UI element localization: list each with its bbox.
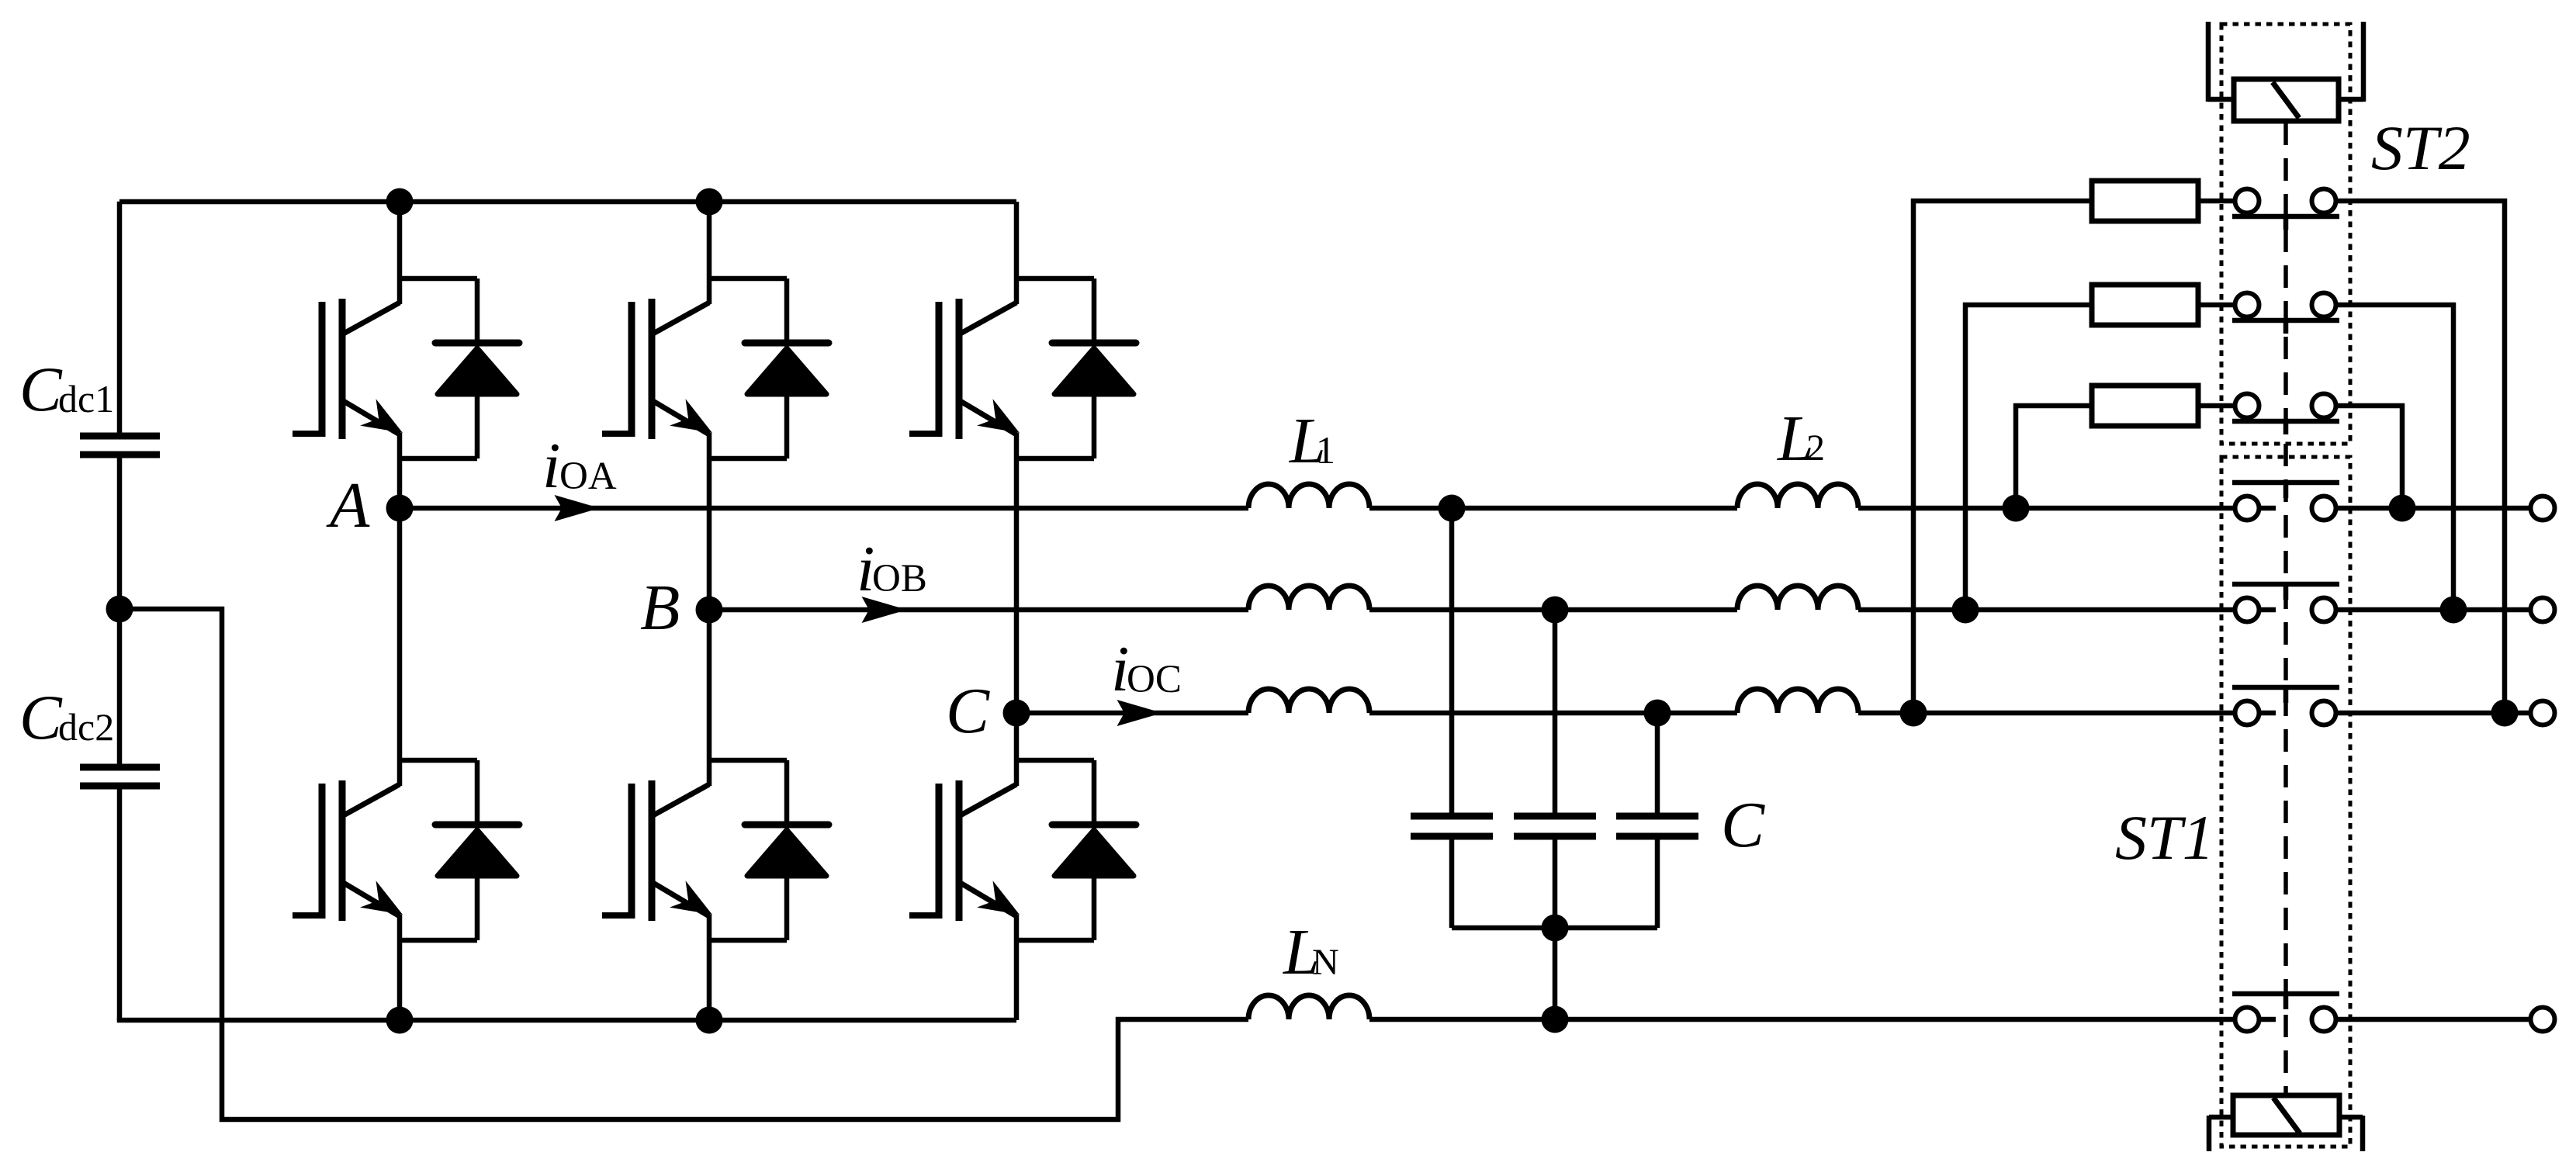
node top rail / leg A xyxy=(386,189,414,216)
contact ST1 phase A xyxy=(2232,483,2339,521)
wire neutral to ST1 xyxy=(1369,1017,2276,1022)
svg-text:A: A xyxy=(326,469,370,541)
inductor L2 phase A xyxy=(1737,484,1858,508)
svg-text:C: C xyxy=(19,682,63,753)
wire ST2 B contact to joint xyxy=(2335,305,2453,610)
wire resistor C to contact xyxy=(2198,199,2247,204)
node rejoin phase B xyxy=(2440,597,2467,624)
contact ST1 phase C xyxy=(2232,687,2339,725)
capacitor C phase A xyxy=(1411,816,1493,928)
contact ST1 phase B xyxy=(2232,584,2339,622)
contact ST1 phase N xyxy=(2232,994,2339,1032)
terminal N xyxy=(2531,1008,2555,1032)
wire leg A upper collector xyxy=(397,202,403,304)
wire leg C phase connection xyxy=(1014,433,1020,786)
terminal B xyxy=(2531,598,2555,622)
wire left DC rail lower xyxy=(117,786,123,1020)
wire leg B upper collector xyxy=(707,202,712,304)
wire leg C lower emitter xyxy=(1014,915,1020,1020)
node rejoin phase A xyxy=(2389,495,2416,522)
svg-text:OC: OC xyxy=(1127,658,1182,701)
wire cap branch B xyxy=(1553,610,1558,816)
diode D2 upper freewheel leg B xyxy=(709,279,829,458)
label ST1 xyxy=(2115,802,2214,873)
svg-text:OB: OB xyxy=(872,557,927,600)
wire cap branch C xyxy=(1655,713,1660,816)
label iOA xyxy=(542,430,617,502)
label LN xyxy=(1283,916,1339,988)
svg-text:ST1: ST1 xyxy=(2115,802,2214,873)
node resistor tap A xyxy=(2003,495,2030,522)
wire ST1 A to terminal xyxy=(2335,506,2531,511)
label Cdc1 xyxy=(19,354,114,424)
coil ST1 xyxy=(2209,1095,2363,1151)
inductor L1 phase A xyxy=(1248,484,1369,508)
wire phase B line xyxy=(709,607,1248,613)
wire negative DC rail (bottom) xyxy=(117,1018,1016,1023)
diode D3 upper freewheel leg C xyxy=(1016,279,1136,458)
contact ST2 phase B xyxy=(2232,293,2339,334)
resistor R3 (phase A soft-start) xyxy=(2092,386,2198,426)
resistor R2 (phase B soft-start) xyxy=(2092,285,2198,325)
label Cdc2 xyxy=(19,682,114,753)
capacitor Cdc1 xyxy=(80,436,160,455)
wire left DC rail middle xyxy=(117,455,123,767)
label L1 xyxy=(1289,405,1335,477)
wire cap branch A xyxy=(1449,508,1455,816)
resistor R1 (phase C soft-start) xyxy=(2092,181,2198,221)
dotted enclosure ST2 xyxy=(2221,24,2350,444)
transistor Q4 lower IGBT leg A xyxy=(293,780,403,921)
node neutral / cap xyxy=(1542,1006,1569,1033)
diode D4 lower freewheel leg A xyxy=(400,760,519,940)
transistor Q5 lower IGBT leg B xyxy=(602,780,712,921)
wire phase A between L1 and L2 xyxy=(1369,506,1737,511)
wire riser resistor branch A xyxy=(2016,406,2092,508)
svg-text:OA: OA xyxy=(559,455,617,498)
node cap tap B xyxy=(1542,597,1569,624)
wire phase C between L1 and L2 xyxy=(1369,711,1737,716)
svg-text:i: i xyxy=(542,430,560,502)
node rejoin phase C xyxy=(2491,700,2519,727)
svg-text:N: N xyxy=(1312,942,1339,983)
inductor LN neutral xyxy=(1248,995,1369,1019)
label A xyxy=(326,469,370,541)
wire ST1 N to terminal xyxy=(2335,1017,2531,1022)
svg-text:B: B xyxy=(640,572,680,644)
wire phase C line xyxy=(1016,711,1248,716)
coil ST2 xyxy=(2208,22,2363,121)
svg-text:ST2: ST2 xyxy=(2371,112,2470,183)
transistor Q1 upper IGBT leg A xyxy=(293,299,403,439)
transistor Q6 lower IGBT leg C xyxy=(909,780,1020,921)
svg-text:C: C xyxy=(946,675,990,747)
node bottom rail / leg A xyxy=(386,1007,414,1034)
transistor Q3 upper IGBT leg C xyxy=(909,299,1020,439)
label L2 xyxy=(1777,403,1825,475)
inductor L1 phase C xyxy=(1248,689,1369,713)
wire phase C to ST1 xyxy=(1858,711,2276,716)
label iOB xyxy=(857,533,927,605)
capacitor Cdc2 xyxy=(80,767,160,786)
actuation dashed link ST2/ST1 xyxy=(2283,123,2288,1094)
wire phase A to ST1 xyxy=(1858,506,2276,511)
node phase A xyxy=(386,495,414,522)
node phase C xyxy=(1003,700,1030,727)
dotted enclosure ST1 xyxy=(2221,457,2350,1147)
wire leg A lower emitter xyxy=(397,915,403,1020)
wire positive DC rail (top) xyxy=(119,199,1016,205)
wire left DC rail upper xyxy=(117,202,123,436)
label C xyxy=(946,675,990,747)
svg-text:2: 2 xyxy=(1806,427,1825,469)
node resistor tap B xyxy=(1952,597,1979,624)
svg-text:dc2: dc2 xyxy=(58,705,114,749)
node bottom rail / leg B xyxy=(696,1007,723,1034)
label ST2 xyxy=(2371,112,2470,183)
capacitor C phase B xyxy=(1514,816,1596,928)
wire capacitor neutral bus xyxy=(1452,926,1657,931)
svg-text:C: C xyxy=(19,354,63,424)
svg-text:1: 1 xyxy=(1316,428,1335,472)
wire riser resistor branch C xyxy=(1913,201,2092,713)
wire phase B between L1 and L2 xyxy=(1369,607,1737,613)
wire leg B lower emitter xyxy=(707,915,712,1020)
transistor Q2 upper IGBT leg B xyxy=(602,299,712,439)
svg-text:C: C xyxy=(1721,789,1765,861)
diode D6 lower freewheel leg C xyxy=(1016,760,1136,940)
arrow iOB xyxy=(862,597,908,623)
node cap tap A xyxy=(1439,495,1466,522)
node cap bus xyxy=(1542,915,1569,942)
wire leg C upper collector xyxy=(1014,202,1020,304)
terminal A xyxy=(2531,497,2555,521)
wire ST1 B to terminal xyxy=(2335,607,2531,613)
capacitor C phase C xyxy=(1616,816,1698,928)
wire resistor A to contact xyxy=(2198,403,2247,409)
wire ST2 C contact to joint xyxy=(2335,201,2505,713)
node DC midpoint xyxy=(106,596,133,623)
node phase B xyxy=(696,597,723,624)
arrow iOC xyxy=(1117,700,1163,726)
contact ST2 phase A xyxy=(2232,394,2339,435)
contact ST2 phase C xyxy=(2232,189,2339,230)
label B xyxy=(640,572,680,644)
wire ST1 C to terminal xyxy=(2335,711,2531,716)
diode D5 lower freewheel leg B xyxy=(709,760,829,940)
inductor L2 phase C xyxy=(1737,689,1858,713)
inductor L1 phase B xyxy=(1248,586,1369,610)
wire ST2 A contact to joint xyxy=(2335,406,2402,508)
wire riser resistor branch B xyxy=(1965,305,2092,610)
node cap tap C xyxy=(1644,700,1671,727)
inductor L2 phase B xyxy=(1737,586,1858,610)
wire leg A phase connection xyxy=(397,433,403,786)
diode D1 upper freewheel leg A xyxy=(400,279,519,458)
svg-text:dc1: dc1 xyxy=(58,377,114,420)
node top rail / leg B xyxy=(696,189,723,216)
wire leg B phase connection xyxy=(707,433,712,786)
terminal C xyxy=(2531,701,2555,725)
wire resistor B to contact xyxy=(2198,303,2247,308)
label iOC xyxy=(1111,633,1182,705)
arrow iOA xyxy=(555,495,601,521)
wire phase B to ST1 xyxy=(1858,607,2276,613)
node resistor tap C xyxy=(1900,700,1927,727)
label C filter xyxy=(1721,789,1765,861)
wire phase A line xyxy=(400,506,1248,511)
wire cap bus to neutral xyxy=(1553,928,1558,1019)
wire neutral from midpoint xyxy=(119,609,1248,1119)
